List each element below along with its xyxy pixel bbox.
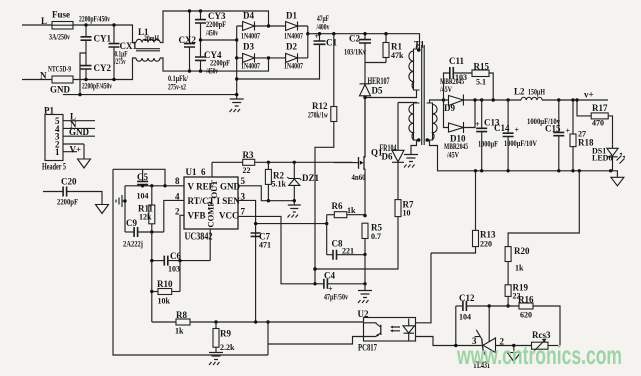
inductor L1 20mH common mode choke (136, 27, 160, 61)
svg-text:3A/250v: 3A/250v (49, 33, 70, 42)
svg-text:104: 104 (137, 192, 149, 201)
capacitor CY2 2200pF/450v (81, 63, 113, 91)
resistor R20 1k (505, 169, 581, 285)
svg-text:R9: R9 (220, 329, 231, 339)
diode D4 1N4007 (241, 11, 260, 41)
capacitor CX2 0.1uFk/275v-x2 (168, 9, 196, 91)
capacitor C14 1000uF/10V (494, 98, 537, 172)
svg-text:/275v: /275v (114, 57, 126, 66)
svg-text:D5: D5 (372, 86, 383, 96)
shunt regulator TL431 (472, 304, 514, 370)
svg-text:Header 5: Header 5 (42, 162, 66, 172)
diode D3 1N4007 (241, 42, 260, 71)
wire VCC pin7 (238, 216, 324, 283)
svg-text:R10: R10 (157, 279, 173, 289)
svg-text:C4: C4 (324, 271, 335, 281)
wire L1 to top rail A (160, 11, 269, 43)
svg-text:620: 620 (520, 311, 532, 320)
capacitor C5 104 (137, 169, 149, 200)
capacitor CY4 2200pF/450v (195, 50, 230, 76)
capacitor CY1 2200pF/450v (79, 15, 111, 66)
wire L line left (22, 24, 52, 26)
svg-text:+: + (515, 126, 520, 135)
svg-text:CX2: CX2 (179, 35, 197, 45)
svg-text:2A222j: 2A222j (123, 240, 143, 249)
svg-text:10k: 10k (158, 297, 171, 306)
wire COMP pin1 riser (209, 229, 211, 261)
resistor R6 1k (327, 201, 367, 255)
svg-text:221: 221 (342, 247, 354, 256)
svg-text:+: + (475, 120, 480, 129)
capacitor C15 1000uF/10v (527, 98, 571, 172)
svg-text:5.1: 5.1 (476, 78, 486, 87)
wire left col C9-C6-R10 vertical (151, 232, 153, 322)
svg-text:UC3842: UC3842 (185, 232, 213, 243)
svg-text:47µF/50v: 47µF/50v (324, 293, 348, 302)
svg-text:Rcs3: Rcs3 (532, 330, 551, 340)
svg-text:R3: R3 (243, 150, 254, 160)
wire gate drive line (212, 161, 353, 163)
wire emitter return riser (267, 322, 269, 355)
ground below C4/R5 (358, 284, 372, 303)
svg-text:1: 1 (55, 147, 60, 157)
resistor R12 270k/1w startup (308, 32, 337, 284)
svg-text:DZ1: DZ1 (302, 173, 320, 183)
wire N line left (22, 79, 52, 81)
wire bridge right vertical (307, 26, 309, 58)
resistor R16 620 (518, 295, 560, 346)
wire secondary top lead (430, 100, 444, 103)
svg-text:471: 471 (259, 241, 271, 250)
svg-text:U1: U1 (186, 167, 197, 177)
svg-text:D1: D1 (286, 11, 297, 21)
diode D5 HER107 clamp (360, 63, 390, 158)
svg-text:R5: R5 (371, 223, 382, 233)
svg-text:6: 6 (201, 167, 206, 177)
wire VREF pin8 line (125, 185, 184, 187)
svg-text:1k: 1k (347, 206, 356, 215)
transformer T1 core (422, 45, 425, 145)
svg-text:2200pF: 2200pF (57, 198, 78, 207)
capacitor C2 103/1Kv (344, 32, 371, 63)
transformer T1 secondary winding (427, 103, 438, 140)
ground below R9 (209, 353, 223, 366)
svg-text:C1: C1 (326, 38, 337, 48)
wire GND pin5 to R2/DZ1 (238, 186, 294, 201)
wire ISEN branch to R6 (256, 223, 327, 225)
potentiometer Rcs3 (514, 330, 560, 352)
svg-text:C11: C11 (449, 56, 465, 66)
node output net arrow C20 (96, 205, 109, 214)
capacitor C4 47uF/50v (324, 271, 367, 302)
svg-text:270k/1w: 270k/1w (308, 111, 328, 120)
svg-text:1000µF/10V: 1000µF/10V (504, 139, 537, 148)
wire opto LED anode riser to R13 (416, 253, 432, 323)
inductor L2 150uH (514, 87, 546, 101)
svg-text:T1: T1 (414, 40, 425, 50)
svg-text:103: 103 (455, 73, 467, 82)
node output net arrow TL431 anode (507, 344, 520, 362)
svg-text:275v-x2: 275v-x2 (168, 83, 186, 92)
svg-text:47k: 47k (391, 51, 404, 60)
node AC1 mid-top junction (267, 24, 270, 27)
svg-text:C20: C20 (61, 177, 77, 187)
svg-text:R8: R8 (176, 310, 187, 320)
ground below aux winding (404, 155, 418, 168)
transformer T1 primary winding (409, 49, 420, 90)
thermistor NTC5D-9 (48, 65, 73, 84)
svg-text:1k: 1k (515, 264, 524, 273)
svg-text:GND: GND (50, 85, 71, 95)
svg-text:C5: C5 (137, 172, 148, 182)
svg-text:R13: R13 (480, 230, 496, 240)
node DC+ takeoff (306, 32, 309, 35)
svg-text:R1: R1 (391, 42, 402, 52)
wire enclosure top left (113, 169, 165, 186)
svg-text:1N4007: 1N4007 (241, 32, 260, 41)
svg-text:D2: D2 (286, 42, 297, 52)
wire secondary bottom to output ground rail (430, 140, 611, 171)
resistor R11 12k (138, 186, 155, 232)
resistor R7 10 (313, 200, 414, 271)
svg-text:1N4007: 1N4007 (284, 32, 303, 41)
svg-text:0.7: 0.7 (371, 232, 381, 241)
resistor R19 22 (505, 283, 528, 308)
svg-text:2.2k: 2.2k (220, 343, 235, 352)
capacitor C6 103 (150, 251, 210, 274)
svg-text:10: 10 (403, 209, 411, 218)
svg-text:7: 7 (241, 207, 246, 217)
svg-text:R12: R12 (312, 101, 328, 111)
resistor R10 10k (150, 279, 180, 306)
svg-text:2200pF/450v: 2200pF/450v (79, 15, 110, 24)
resistor R8 1k (175, 310, 190, 336)
svg-text:www.cntronics.com: www.cntronics.com (456, 340, 622, 370)
wire OUT pin6 riser (211, 162, 213, 177)
resistor R5 0.7 (362, 223, 382, 242)
connector P1 Header 5 (42, 106, 95, 172)
resistor R3 22 (243, 150, 255, 175)
svg-text:HER107: HER107 (368, 76, 390, 86)
wire snubber bottom (365, 62, 386, 64)
svg-text:v+: v+ (584, 90, 594, 100)
svg-text:CY1: CY1 (94, 34, 112, 44)
svg-text:R15: R15 (474, 62, 490, 72)
svg-text:L2: L2 (514, 87, 525, 97)
svg-text:Fuse: Fuse (52, 10, 70, 20)
resistor R17 470 (575, 98, 612, 145)
svg-text:R16: R16 (518, 295, 534, 305)
wire output V+ rail (444, 99, 609, 101)
wire DC+ rail (308, 34, 420, 49)
wire bridge bottom branch (237, 57, 308, 59)
svg-text:150µH: 150µH (528, 88, 546, 97)
svg-text:4n60: 4n60 (352, 173, 366, 182)
resistor R9 2.2k (213, 320, 235, 352)
svg-text:8: 8 (175, 176, 180, 186)
wire P1 pin2 to arrow (83, 144, 85, 159)
wire left col down to C9 row (124, 186, 126, 232)
wire R8 row (152, 321, 364, 323)
transformer T1 aux winding (409, 103, 420, 140)
svg-text:5: 5 (241, 176, 246, 186)
svg-text:C14: C14 (494, 123, 510, 133)
svg-text:C9: C9 (126, 218, 137, 228)
node junction CY-gnd (78, 93, 81, 96)
svg-text:NTC5D-9: NTC5D-9 (48, 65, 71, 74)
svg-text:103/1Kv: 103/1Kv (344, 48, 366, 57)
capacitor C12 104 (454, 293, 519, 347)
svg-text:GND: GND (220, 182, 241, 192)
wire opto LED cathode to TL431 (416, 337, 482, 346)
svg-text:C12: C12 (459, 293, 475, 303)
svg-text:C15: C15 (545, 124, 561, 134)
wire L1 to bottom rail B (160, 58, 269, 71)
resistor R15 5.1 (472, 62, 495, 102)
wire CY3/CY4 midpoint to bridge (201, 39, 237, 41)
svg-text:5.1k: 5.1k (272, 180, 287, 189)
svg-text:220: 220 (480, 240, 492, 249)
node output net arrow P1 (78, 159, 91, 168)
ground below DZ1 (288, 201, 301, 218)
capacitor C1 47uF/400v electrolytic (235, 14, 337, 81)
svg-text:1N4007: 1N4007 (241, 62, 260, 71)
wire CY midpoint to GND line (80, 53, 86, 95)
wire aux bottom return (411, 140, 417, 155)
svg-text:V+: V+ (70, 145, 82, 155)
wire emitter return (268, 337, 364, 345)
capacitor C11 103 snubber (444, 56, 473, 100)
svg-text:VCC: VCC (219, 211, 239, 221)
svg-text:OUT: OUT (209, 180, 219, 199)
capacitor C20 2200pF (43, 177, 102, 207)
wire primary top lead (417, 45, 420, 49)
svg-text:20mH: 20mH (144, 34, 160, 43)
resistor R1 47k (383, 32, 404, 63)
svg-text:D3: D3 (243, 42, 254, 52)
wire VFB pin2 riser (180, 215, 184, 291)
capacitor C7 471 (251, 232, 271, 250)
svg-text:1000µF: 1000µF (478, 140, 498, 149)
capacitor C8 221 (327, 239, 367, 260)
svg-text:2: 2 (175, 207, 180, 217)
svg-text:12k: 12k (139, 213, 152, 222)
ground sideways at left column (116, 195, 127, 207)
svg-text:1k: 1k (175, 327, 184, 336)
svg-text:/400v: /400v (316, 23, 330, 32)
svg-text:22: 22 (243, 166, 251, 175)
wire source column (364, 239, 366, 285)
optocoupler U2 PC817 (358, 309, 416, 353)
wire aux top lead to D6 (398, 102, 417, 105)
svg-text:/450v: /450v (205, 67, 218, 76)
zener diode DZ1 (287, 161, 319, 201)
capacitor CY3 2200pF/450v (195, 9, 226, 57)
diode D9 MBR2045/45V (439, 77, 464, 113)
svg-text:CY2: CY2 (94, 63, 112, 73)
node AC2 mid-bottom junction (267, 56, 270, 59)
wire RT/CT pin4 riser (164, 200, 184, 232)
resistor R13 220 (431, 169, 496, 253)
svg-text:/450v: /450v (205, 29, 218, 38)
transistor Q1 4n60 (334, 162, 359, 164)
resistor R18 27 (570, 98, 594, 172)
op-amp U1 UC3842 (175, 167, 246, 243)
diode D2 1N4007 (284, 42, 303, 71)
wire N line to choke (73, 58, 136, 80)
wire bridge top branch (237, 25, 308, 27)
capacitor C13 1000uF (475, 98, 500, 172)
svg-text:C2: C2 (349, 34, 360, 44)
ground below bridge (230, 93, 244, 112)
wire primary bottom to drain node (365, 90, 417, 98)
wire L line to choke (73, 25, 136, 43)
LED DS1 (592, 145, 625, 173)
wire GND line (63, 94, 237, 96)
svg-text:R17: R17 (592, 103, 608, 113)
diode D10 MBR2045/45V (444, 98, 477, 159)
svg-text:GND: GND (69, 127, 90, 137)
fuse F1 3A/250v (49, 10, 73, 42)
svg-text:VFB: VFB (188, 211, 206, 221)
svg-text:2200pF/450v: 2200pF/450v (82, 82, 112, 91)
svg-text:LED6: LED6 (592, 154, 612, 163)
svg-text:D6: D6 (382, 152, 393, 162)
svg-text:103: 103 (168, 265, 180, 274)
svg-text:D9: D9 (444, 103, 455, 113)
capacitor CX1 0.1uF/275v (109, 23, 138, 81)
svg-text:COMP: COMP (206, 202, 216, 228)
capacitor C9 2A222j (123, 218, 164, 249)
svg-text:470: 470 (592, 119, 604, 128)
wire ISEN pin3 (238, 200, 256, 322)
wire bridge left vertical (236, 26, 238, 95)
svg-text:R6: R6 (332, 201, 343, 211)
svg-text:1N4007: 1N4007 (284, 62, 303, 71)
svg-text:R20: R20 (514, 246, 530, 256)
resistor R2 5.1k (265, 161, 286, 201)
wire enclosure left + bottom (113, 169, 268, 355)
svg-text:I SEN: I SEN (217, 196, 241, 206)
svg-text:D4: D4 (243, 11, 254, 21)
diode D1 1N4007 (284, 11, 303, 41)
diode D6 FR104 (380, 103, 405, 200)
svg-text:/45V: /45V (446, 151, 459, 160)
node output net arrow right (611, 171, 618, 178)
svg-text:PC817: PC817 (358, 343, 377, 353)
svg-text:104: 104 (459, 313, 471, 322)
svg-text:/45V: /45V (439, 85, 452, 94)
